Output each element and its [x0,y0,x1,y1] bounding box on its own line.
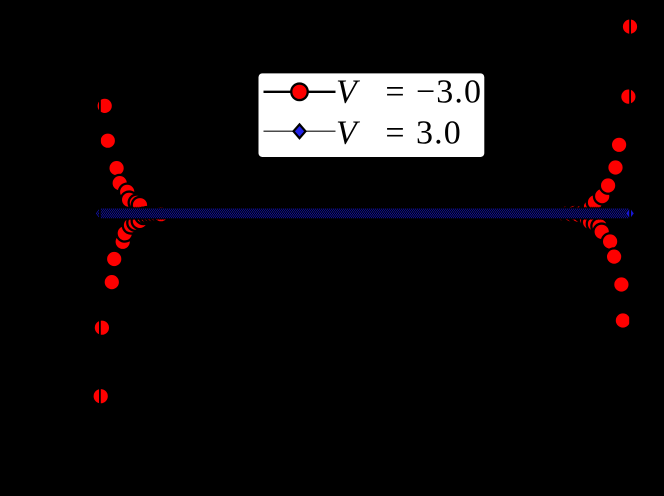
svg-text:=: = [385,73,405,110]
legend handle row 1 [264,91,336,93]
right spine [629,6,631,470]
svg-text:−3.0: −3.0 [416,73,482,110]
svg-text:3.0: 3.0 [416,115,462,152]
left spine [99,6,101,470]
svg-text:V: V [336,73,361,110]
red series V=-3.0 markers [92,18,638,404]
blue series V=3.0 markers [95,207,634,219]
legend handle row 2 [264,130,336,132]
svg-text:V: V [336,115,361,152]
legend box [258,73,485,158]
svg-text:=: = [385,115,405,152]
